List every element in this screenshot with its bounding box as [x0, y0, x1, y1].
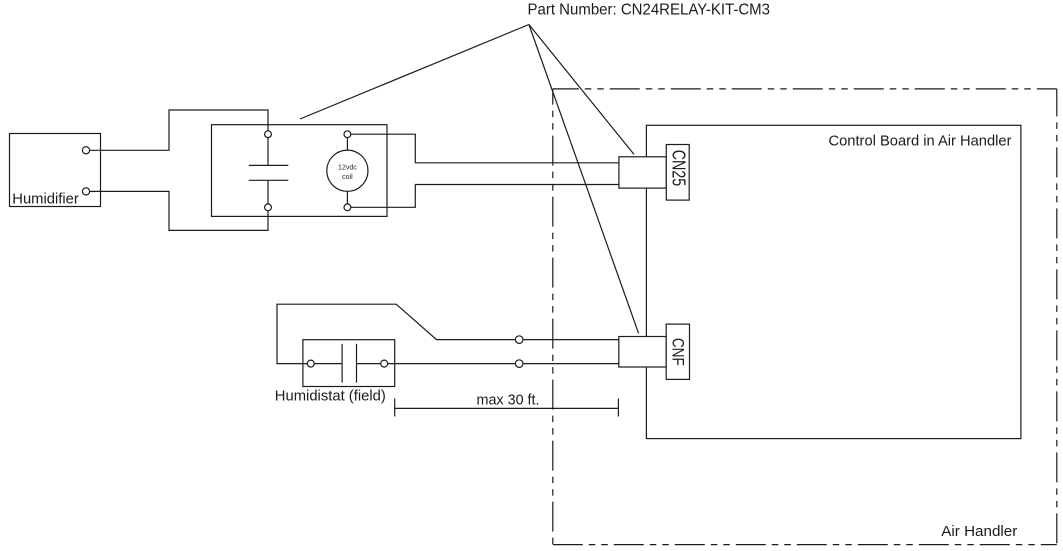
- humidistat box: [303, 340, 395, 387]
- relay coil circle: [327, 150, 368, 191]
- coil terminal node (top): [344, 131, 351, 138]
- relay module box: [212, 125, 388, 217]
- humidistat terminal node (left): [307, 360, 314, 367]
- svg-text:CNF: CNF: [668, 338, 687, 366]
- svg-text:Part Number: CN24RELAY-KIT-CM3: Part Number: CN24RELAY-KIT-CM3: [528, 1, 771, 18]
- wire: splice to CNF top: [523, 339, 619, 341]
- humidistat terminal node (right): [381, 360, 388, 367]
- air handler enclosure right edge (dashed): [1056, 89, 1058, 545]
- svg-text:max 30 ft.: max 30 ft.: [477, 393, 540, 409]
- svg-text:CN25: CN25: [668, 150, 688, 187]
- svg-text:Humidifier: Humidifier: [12, 191, 79, 207]
- wire: coil bottom terminal to CN25: [351, 185, 619, 208]
- splice node (bottom wire): [515, 360, 523, 368]
- wire: humidistat right terminal to splice: [388, 363, 516, 365]
- svg-text:Control Board in Air Handler: Control Board in Air Handler: [829, 133, 1012, 149]
- air handler enclosure bottom edge (dashed): [553, 544, 1057, 546]
- dimension line: [395, 407, 619, 409]
- CN25 connector stub: [619, 157, 666, 188]
- svg-text:coil: coil: [342, 174, 353, 181]
- wire: coil top terminal to CN25: [351, 134, 619, 163]
- humidistat contact plate (right): [356, 344, 358, 383]
- capacitor terminal node (top): [265, 131, 272, 138]
- svg-text:Humidistat (field): Humidistat (field): [275, 388, 386, 404]
- air handler enclosure left edge (dashed): [552, 89, 554, 545]
- relay contact capacitor wire (bottom lead): [267, 180, 269, 204]
- svg-text:Air Handler: Air Handler: [941, 524, 1017, 540]
- humidistat contact plate (left): [341, 344, 343, 383]
- coil lead wire (top): [346, 138, 348, 151]
- coil lead wire (bottom): [346, 191, 348, 204]
- humidifier box: [10, 134, 101, 207]
- CNF connector stub: [619, 337, 666, 368]
- wire: humidifier bottom terminal to relay capacitor bottom: [90, 191, 268, 230]
- capacitor plate (top): [249, 164, 288, 166]
- CNF connector box: [666, 324, 689, 379]
- wire: humidifier top terminal to relay capacitor top: [90, 110, 268, 150]
- dimension tick (right): [617, 399, 619, 417]
- humidifier terminal node (bottom): [82, 188, 89, 195]
- humidistat internal wire (left): [314, 363, 342, 365]
- coil terminal node (bottom): [344, 204, 351, 211]
- leader line to CN25 connector: [529, 25, 634, 155]
- air handler enclosure top edge (dashed): [553, 88, 1057, 90]
- capacitor plate (bottom): [249, 179, 288, 181]
- humidistat internal wire (right): [357, 363, 381, 365]
- leader line to relay module: [300, 25, 529, 120]
- leader line to CNF connector: [529, 25, 639, 334]
- wire: humidistat left terminal to CNF top (field wiring): [277, 304, 515, 363]
- svg-text:12vdc: 12vdc: [338, 165, 357, 172]
- relay contact capacitor wire (top lead): [267, 138, 269, 166]
- CN25 connector box: [666, 145, 689, 201]
- dimension tick (left): [394, 399, 396, 417]
- capacitor terminal node (bottom): [265, 204, 272, 211]
- wire: splice to CNF bottom: [523, 363, 619, 365]
- humidifier terminal node (top): [82, 147, 89, 154]
- control board box: [646, 125, 1021, 438]
- splice node (top wire): [515, 336, 523, 344]
